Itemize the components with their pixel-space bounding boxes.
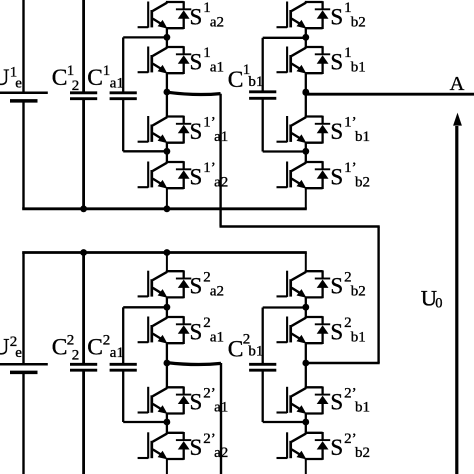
svg-text:S: S xyxy=(190,319,203,344)
svg-text:S: S xyxy=(190,435,203,460)
svg-text:C: C xyxy=(87,335,103,361)
svg-text:S: S xyxy=(190,274,203,299)
svg-text:C: C xyxy=(52,335,68,361)
svg-text:a1: a1 xyxy=(110,345,124,361)
svg-text:S: S xyxy=(330,390,343,415)
svg-text:a1: a1 xyxy=(210,59,224,75)
svg-text:C: C xyxy=(87,65,103,91)
svg-text:a1: a1 xyxy=(214,400,228,416)
svg-text:a1: a1 xyxy=(210,329,224,345)
svg-text:a2: a2 xyxy=(214,174,228,190)
svg-text:A: A xyxy=(450,73,465,95)
svg-text:a2: a2 xyxy=(210,284,224,300)
svg-text:b1: b1 xyxy=(351,59,366,75)
svg-text:b1: b1 xyxy=(351,329,366,345)
svg-text:S: S xyxy=(190,164,203,189)
svg-text:0: 0 xyxy=(435,295,442,311)
svg-text:b2: b2 xyxy=(351,284,366,300)
svg-text:S: S xyxy=(190,390,203,415)
svg-text:S: S xyxy=(330,49,343,74)
svg-text:C: C xyxy=(52,65,68,91)
svg-text:a1: a1 xyxy=(110,76,124,92)
svg-text:a2: a2 xyxy=(210,14,224,30)
svg-text:a2: a2 xyxy=(214,445,228,461)
svg-text:S: S xyxy=(190,49,203,74)
svg-text:S: S xyxy=(330,4,343,29)
svg-text:1: 1 xyxy=(67,63,75,79)
svg-text:S: S xyxy=(330,164,343,189)
svg-text:2: 2 xyxy=(72,348,80,364)
svg-text:C: C xyxy=(228,336,244,362)
svg-text:S: S xyxy=(330,119,343,144)
svg-text:S: S xyxy=(330,319,343,344)
svg-text:b2: b2 xyxy=(355,174,370,190)
svg-text:a1: a1 xyxy=(214,129,228,145)
svg-text:S: S xyxy=(330,435,343,460)
svg-text:S: S xyxy=(330,274,343,299)
svg-text:b2: b2 xyxy=(351,14,366,30)
svg-text:2: 2 xyxy=(72,78,80,94)
svg-text:b1: b1 xyxy=(248,74,263,90)
svg-text:U: U xyxy=(0,335,10,361)
svg-text:2: 2 xyxy=(67,332,75,348)
svg-text:b2: b2 xyxy=(355,445,370,461)
svg-text:b1: b1 xyxy=(355,129,370,145)
svg-text:S: S xyxy=(190,119,203,144)
svg-text:C: C xyxy=(228,67,244,93)
svg-text:e: e xyxy=(15,76,22,92)
svg-text:S: S xyxy=(190,4,203,29)
svg-text:b1: b1 xyxy=(355,400,370,416)
svg-text:e: e xyxy=(15,345,22,361)
svg-text:U: U xyxy=(0,65,10,91)
svg-text:b1: b1 xyxy=(248,344,263,360)
